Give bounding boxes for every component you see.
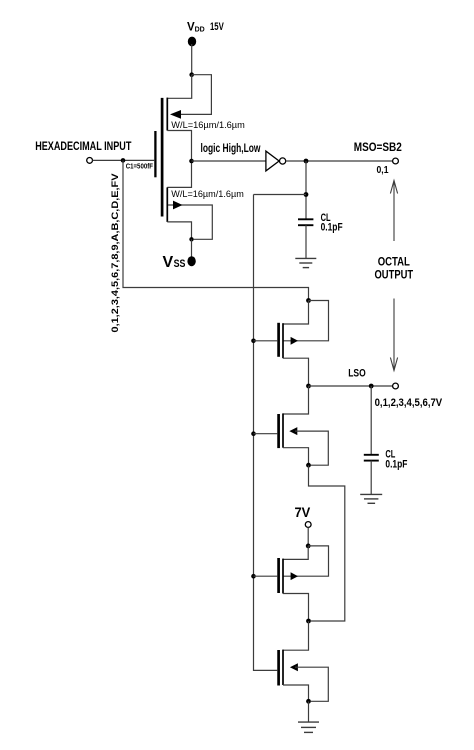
wire 7V to M5: [307, 527, 309, 546]
wire M5 gate: [254, 575, 278, 577]
wire CL1 node to rail: [254, 194, 307, 196]
capacitor C1 gate plate (shared gate bar): [161, 98, 164, 217]
node M3 drain dot: [306, 298, 311, 303]
node LSO dot: [306, 384, 311, 389]
wire M4 gate: [254, 433, 278, 435]
transistor M6 gate bar: [277, 650, 280, 686]
node junction dot at VDD branch: [189, 72, 194, 77]
inverter U1: [266, 151, 279, 171]
wire to VSS: [191, 239, 193, 257]
node logic output dot: [189, 159, 194, 164]
wire CL1 to ground: [305, 225, 307, 258]
wire source lead of M4: [283, 448, 309, 466]
wire inverter output to MSO: [286, 160, 393, 162]
transistor M5 channel: [282, 559, 284, 594]
transistor M5 bulk arrow: [291, 572, 298, 580]
wire input rail down and right to M3 drain: [123, 160, 309, 300]
transistor M1 bulk arrow: [170, 110, 181, 119]
wire drain lead of M3: [283, 301, 309, 325]
wire CL2 to ground: [370, 461, 372, 494]
svg-text:DD: DD: [195, 26, 205, 33]
transistor M4 gate bar: [277, 414, 280, 448]
wire VDD to junction: [191, 44, 193, 75]
transistor M5 gate bar: [277, 558, 280, 593]
node VDD label: [187, 21, 224, 34]
node M4 source dot: [306, 463, 311, 468]
VSS terminal dot: [187, 256, 195, 266]
wire bulk loop of M1: [181, 75, 211, 115]
wire bulk lead of M4: [295, 431, 328, 465]
svg-text:0.1pF: 0.1pF: [385, 458, 407, 470]
svg-text:7V: 7V: [295, 505, 311, 520]
svg-text:LSO: LSO: [348, 367, 366, 379]
wire drain lead of M1: [167, 75, 191, 99]
terminal MSO circle: [393, 158, 399, 164]
svg-text:OUTPUT: OUTPUT: [375, 267, 414, 281]
node M5 gate dot on rail: [251, 574, 256, 579]
transistor M3 gate bar: [277, 323, 280, 357]
transistor M2 channel: [166, 187, 168, 222]
node M6 source dot: [306, 699, 311, 704]
capacitor CL2: [364, 455, 379, 461]
wire LSO junction to CL2: [370, 386, 372, 454]
node MSO junction dot: [304, 159, 309, 164]
svg-text:OCTAL: OCTAL: [378, 254, 410, 268]
VDD terminal dot: [188, 37, 196, 47]
capacitor C1 input plate: [154, 131, 156, 177]
node LSO cap junction dot: [369, 384, 374, 389]
arrow octal up: [390, 181, 397, 242]
wire M3 gate: [254, 340, 278, 342]
wire drain lead of M5: [283, 546, 308, 560]
node VSS label: [163, 254, 186, 271]
node VSS junction dot: [189, 237, 193, 241]
inverter U1 input wire: [192, 160, 266, 162]
capacitor CL1: [298, 219, 313, 225]
node input junction dot: [121, 158, 126, 163]
wire bulk loop of M5: [283, 546, 329, 576]
svg-text:0,1,2,3,4,5,6,7,8,9,A,B,C,D,E,: 0,1,2,3,4,5,6,7,8,9,A,B,C,D,E,FV: [110, 173, 121, 333]
transistor M6 channel: [282, 650, 284, 685]
node M3 gate dot on rail: [251, 339, 256, 344]
svg-text:C1=500fF: C1=500fF: [126, 164, 154, 171]
svg-text:MSO=SB2: MSO=SB2: [354, 140, 402, 154]
wire source lead of M2: [167, 222, 191, 239]
transistor M1 channel: [166, 98, 168, 131]
wire LSO to terminal: [309, 385, 393, 387]
inverter U1 bubble: [280, 158, 286, 164]
node CL1 junction dot: [304, 192, 309, 197]
ground GND3: [298, 722, 319, 732]
svg-text:0.1pF: 0.1pF: [321, 222, 343, 234]
svg-text:SS: SS: [174, 258, 186, 270]
wire bulk lead of M2: [168, 205, 212, 239]
svg-text:15V: 15V: [210, 21, 224, 33]
svg-text:0,1: 0,1: [377, 165, 389, 176]
wire source lead of M5: [283, 594, 309, 622]
terminal LSO circle: [393, 383, 399, 389]
svg-text:W/L=16µm/1.6µm: W/L=16µm/1.6µm: [171, 189, 244, 200]
svg-text:V: V: [163, 254, 174, 271]
transistor M2 bulk arrow: [173, 201, 183, 210]
node 7V junction dot: [306, 544, 311, 549]
wire input to C1: [93, 159, 155, 161]
transistor M4 bulk arrow: [289, 427, 297, 435]
wire rail from CL1 node down to M6 gate: [254, 195, 278, 671]
wire MSO node down to CL1: [305, 161, 307, 219]
arrow octal down: [390, 299, 397, 371]
svg-text:0,1,2,3,4,5,6,7V: 0,1,2,3,4,5,6,7V: [375, 397, 443, 409]
wire source lead of M3 to LSO: [283, 358, 309, 386]
terminal 7V circle: [305, 522, 311, 528]
transistor M4 channel: [282, 413, 284, 447]
wire bulk loop of M3: [283, 301, 329, 341]
wire source lead of M1 down to logic node and M2 drain: [167, 131, 191, 188]
terminal input circle: [87, 158, 93, 164]
transistor M6 bulk arrow: [290, 663, 298, 671]
label OCTAL OUTPUT: [375, 254, 414, 281]
wire source lead of M6: [283, 685, 309, 701]
node M6 drain dot: [306, 619, 311, 624]
ground GND1: [295, 258, 316, 267]
svg-text:W/L=16µm/1.6µm: W/L=16µm/1.6µm: [171, 120, 245, 131]
wire bulk lead of M6: [295, 667, 328, 701]
wire M6 source to ground: [308, 701, 310, 722]
wire bypass M4 source to M6 drain node: [309, 465, 345, 621]
svg-text:HEXADECIMAL INPUT: HEXADECIMAL INPUT: [35, 139, 132, 153]
transistor M3 bulk arrow: [291, 337, 298, 345]
svg-text:logic High,Low: logic High,Low: [201, 141, 261, 155]
ground GND2: [360, 494, 382, 503]
transistor M3 channel: [282, 323, 284, 358]
node M4 gate dot on rail: [251, 431, 256, 436]
wire drain lead of M4: [283, 386, 309, 414]
wire drain lead of M6: [283, 621, 309, 650]
